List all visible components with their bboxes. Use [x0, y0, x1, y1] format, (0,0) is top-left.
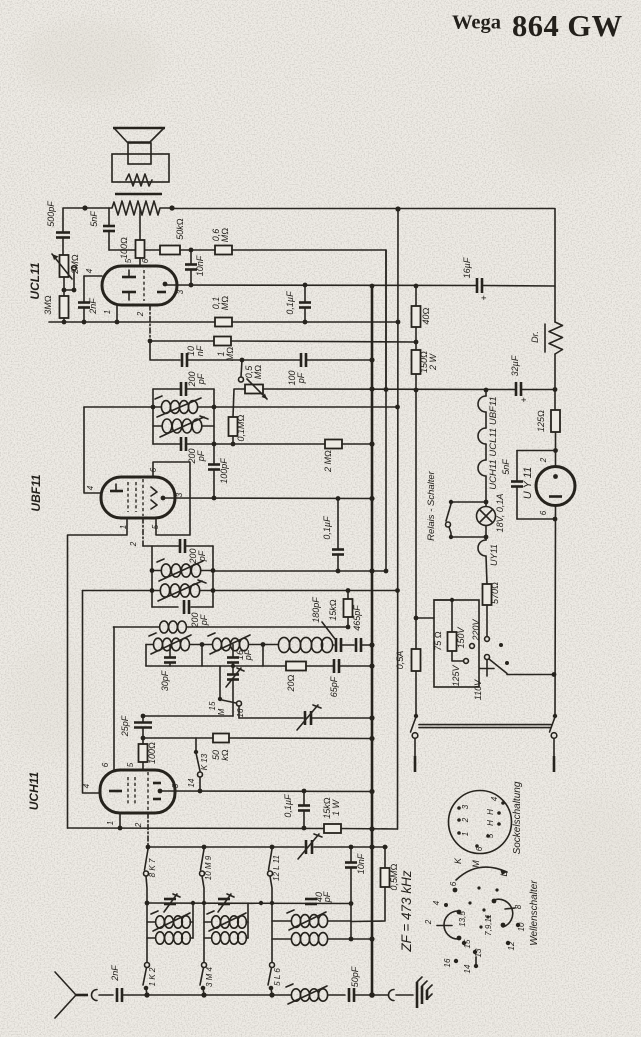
L band coil tuned [272, 920, 291, 922]
svg-text:MΩ: MΩ [253, 365, 263, 379]
svg-text:2: 2 [136, 311, 145, 317]
svg-text:8: 8 [514, 904, 523, 909]
riser from pin6 [113, 626, 116, 628]
mains cable double line [419, 724, 551, 726]
fuse 0,5A [412, 649, 421, 671]
node heater y537 [484, 535, 489, 540]
node box left y407 [151, 405, 156, 410]
svg-text:8 K 7: 8 K 7 [148, 858, 157, 877]
svg-text:ZF = 473 kHz: ZF = 473 kHz [399, 870, 414, 952]
rectifier tube UY11 [536, 467, 575, 506]
svg-text:15: 15 [208, 701, 217, 710]
plug prong right [553, 739, 555, 758]
svg-text:10nF: 10nF [356, 853, 366, 874]
svg-text:2 MΩ: 2 MΩ [323, 450, 333, 473]
svg-text:16µF: 16µF [462, 257, 472, 278]
svg-text:100pF: 100pF [219, 458, 229, 484]
plug prong left [414, 739, 416, 758]
gang capacitor RF section [305, 840, 308, 854]
svg-text:4: 4 [86, 485, 95, 490]
IF2 bottom wire [152, 606, 178, 608]
node x214 y498 [212, 496, 217, 501]
line y903 [147, 902, 351, 905]
L band coil ant on y939 [272, 938, 291, 940]
resistor 3M [60, 296, 69, 318]
svg-text:6: 6 [475, 846, 484, 851]
IF1 box left [152, 389, 154, 444]
svg-text:2: 2 [461, 817, 470, 823]
svg-text:125V: 125V [451, 664, 461, 686]
IF1 top wire [153, 388, 180, 390]
svg-text:5nF: 5nF [501, 459, 511, 475]
svg-text:MΩ: MΩ [220, 228, 230, 242]
terminal 125V [464, 659, 469, 664]
svg-text:1: 1 [461, 832, 470, 836]
capacitor 200pF IF1 bottom [153, 443, 180, 445]
pin4 wire to x84 [84, 407, 101, 493]
node x555 y389 [553, 387, 558, 392]
svg-text:465pF: 465pF [352, 605, 362, 631]
node x416 y342 [414, 340, 419, 345]
socket pins left column [457, 806, 461, 810]
osc line y627 [114, 626, 160, 628]
resistor 2M series [325, 440, 342, 449]
node x397 y590 [395, 588, 400, 593]
wire below lamp [485, 526, 487, 541]
IF2 primary coil [152, 570, 161, 572]
node top rail x397 [395, 206, 400, 211]
svg-text:2MΩ: 2MΩ [70, 254, 80, 275]
anode line y498 [165, 497, 372, 500]
node box left y571 [150, 568, 155, 573]
svg-text:13: 13 [474, 948, 483, 957]
trimmer L 40pF [305, 898, 317, 901]
node x214 y444 [212, 442, 217, 447]
coil L osc big [278, 637, 289, 652]
pin2 dashed drop [147, 813, 149, 847]
output transformer frame [112, 154, 169, 182]
svg-text:13,5: 13,5 [458, 911, 467, 927]
capacitor 2nF antenna [116, 988, 119, 1002]
svg-text:nF: nF [195, 345, 205, 356]
svg-text:12 L 11: 12 L 11 [272, 855, 281, 881]
svg-text:4: 4 [432, 900, 441, 905]
svg-text:UBF11: UBF11 [29, 474, 43, 511]
pin2 wire dashdot [149, 305, 151, 341]
pin6 wire + resistor 100 ohm [139, 208, 141, 240]
M band coil ant [204, 937, 211, 939]
svg-text:3: 3 [176, 289, 185, 294]
wiper wire to 0,1M [233, 389, 245, 417]
capacitor 200pF IF2 bottom [183, 600, 186, 614]
UCL11 pin3 dot [163, 282, 168, 287]
IF2 top wire [143, 545, 179, 547]
wire [180, 249, 215, 251]
wave switch arc KML [456, 867, 507, 880]
ground symbol [416, 982, 419, 1008]
svg-text:5: 5 [486, 833, 495, 838]
terminal 220V [485, 637, 490, 642]
wiper 110V [485, 655, 490, 660]
svg-text:16: 16 [443, 958, 452, 967]
K band coil tuned [147, 921, 155, 923]
vertical x386 [385, 250, 387, 571]
M section verticals [203, 903, 205, 962]
svg-text:6: 6 [101, 762, 110, 767]
svg-text:4: 4 [82, 783, 91, 788]
svg-text:5: 5 [126, 762, 135, 767]
IF1 primary coil [84, 406, 161, 408]
node x348 y590 [346, 588, 351, 593]
wire wiper [64, 270, 74, 290]
capacitor 10nF vertical [190, 250, 192, 264]
switch M4 [202, 963, 207, 968]
capacitor 100pF tap [213, 444, 215, 464]
5nF bottom wire [517, 518, 555, 520]
svg-text:Relais - Schalter: Relais - Schalter [426, 470, 437, 541]
pin6 feedback loop [153, 462, 190, 535]
node x372 y571 [369, 568, 374, 573]
node x486 y390 heater top [484, 388, 489, 393]
svg-text:3: 3 [171, 783, 180, 788]
M band coil tuned [204, 921, 211, 923]
svg-text:0,1µF: 0,1µF [285, 291, 295, 315]
gang capacitor osc section [304, 711, 307, 725]
pin4 wire [84, 275, 102, 277]
capacitor 16pF [232, 645, 234, 658]
node bus x398 [396, 320, 401, 325]
svg-text:K: K [453, 857, 463, 864]
osc coil line y644 [146, 644, 153, 646]
UBF11 grid dashes [127, 482, 129, 512]
node box right y407 [212, 405, 217, 410]
K band coil ant [147, 937, 155, 939]
svg-text:M: M [217, 708, 226, 715]
IF2 box left [151, 546, 153, 607]
svg-text:14: 14 [187, 778, 196, 787]
earth line coil [291, 989, 300, 1001]
tube UCH11 envelope [100, 770, 175, 813]
svg-text:UCL11: UCL11 [28, 262, 42, 299]
node x555 y519 [553, 517, 558, 522]
node box right y590 [211, 588, 216, 593]
svg-text:100Ω: 100Ω [147, 742, 157, 764]
svg-text:1 K 2: 1 K 2 [148, 967, 157, 986]
capacitor 5nF UY [516, 451, 518, 482]
IF1 secondary coil [153, 425, 162, 427]
vertical x397 [397, 209, 400, 829]
switch M9 [201, 849, 205, 870]
svg-text:Wellenschalter: Wellenschalter [529, 880, 540, 946]
mains switch right [553, 714, 557, 718]
svg-text:0,5MΩ: 0,5MΩ [389, 863, 399, 890]
resistor 15k 1W series [324, 824, 341, 833]
UBF11 pin2 internal dash [142, 479, 144, 516]
svg-text:pF: pF [243, 649, 253, 661]
UCL11 cathode bar [122, 291, 136, 294]
node bus [62, 320, 67, 325]
switch K13 [194, 750, 198, 754]
svg-text:180pF: 180pF [311, 597, 321, 623]
capacitor 0,1uF drop [304, 285, 306, 302]
pin4 wire left riser [83, 591, 101, 794]
switch K7 [145, 849, 149, 870]
resistor 15k AVC [347, 591, 349, 600]
capacitor 100pF series [300, 353, 303, 367]
wire y360 [150, 341, 180, 360]
antenna connector hook [92, 990, 98, 1001]
svg-text:220V: 220V [471, 618, 481, 641]
svg-text:1: 1 [106, 821, 115, 825]
svg-text:7,9,11: 7,9,11 [484, 914, 493, 936]
switch M 15/16 [219, 666, 221, 697]
svg-text:30pF: 30pF [160, 670, 170, 691]
svg-text:0,1MΩ: 0,1MΩ [236, 414, 246, 441]
svg-text:14: 14 [463, 964, 472, 973]
capacitor 65pF series [333, 659, 336, 673]
op tube UCL11 envelope [102, 266, 177, 305]
node x397 y407 [395, 405, 400, 410]
svg-text:pF: pF [196, 450, 206, 462]
line y444 [187, 443, 325, 445]
svg-text:UCH11 UCL11 UBF11: UCH11 UCL11 UBF11 [488, 396, 499, 489]
line y666 [146, 665, 286, 667]
svg-text:4: 4 [85, 268, 94, 273]
pin2 dashed drop [142, 518, 144, 546]
svg-text:kΩ: kΩ [220, 749, 230, 761]
pin1 wire [119, 813, 121, 828]
trimmer K [164, 898, 176, 901]
svg-text:+: + [519, 397, 529, 402]
pin6 riser to osc coil [113, 627, 115, 770]
resistor 50k [160, 246, 180, 255]
svg-text:UCH11: UCH11 [27, 771, 41, 810]
resistor 1M series [214, 337, 231, 346]
svg-text:5 L 6: 5 L 6 [273, 968, 282, 986]
trimmer M [227, 673, 239, 676]
svg-text:0,1µF: 0,1µF [283, 794, 293, 818]
cathode bus y828 [68, 827, 325, 830]
coil core arrow [157, 398, 201, 417]
anode line y791 [162, 790, 372, 793]
svg-text:M: M [471, 860, 481, 868]
svg-text:100Ω: 100Ω [119, 237, 129, 259]
capacitor 180pF [335, 638, 338, 652]
resistor 150 ohm 2W [412, 350, 421, 374]
IF2 box right [212, 546, 214, 607]
UCH11 grid dashes [127, 777, 129, 806]
svg-text:K 13: K 13 [200, 753, 209, 770]
svg-text:2: 2 [539, 457, 548, 463]
svg-text:Sockelschaltung: Sockelschaltung [512, 781, 523, 854]
grid line y716 [143, 715, 233, 717]
heater UY11 bump [478, 540, 486, 556]
resistor 0,6M [215, 246, 232, 255]
svg-text:25pF: 25pF [120, 715, 130, 737]
switch L11 [269, 849, 273, 870]
resistor 0,1M series [215, 318, 232, 327]
svg-text:15: 15 [463, 939, 472, 948]
node 50k junction [189, 248, 194, 253]
wire pot to rail [263, 388, 515, 391]
wave switch left rotor [444, 911, 458, 939]
switch K2 [145, 963, 150, 968]
svg-text:3: 3 [175, 492, 184, 497]
wire top rail y=208 [172, 208, 555, 210]
wire y250 left [109, 249, 135, 251]
svg-text:75 Ω: 75 Ω [433, 631, 443, 651]
capacitor 10nF AVC [350, 847, 352, 862]
switch L6 [270, 963, 275, 968]
svg-text:2: 2 [129, 541, 138, 547]
svg-text:H: H [486, 820, 495, 826]
node y360 x372 [369, 357, 374, 362]
svg-text:1 W: 1 W [331, 799, 341, 817]
K section verticals [146, 903, 148, 962]
UCH11 pin3 dot [158, 789, 163, 794]
resistor 125 ohm [551, 410, 560, 432]
wire to 570 [486, 556, 487, 584]
resistor 0,1M [229, 417, 238, 436]
wire y571 to x386 [213, 570, 386, 572]
IF1 box right [213, 389, 215, 444]
wire [63, 318, 65, 322]
svg-text:1: 1 [103, 310, 112, 314]
node A field coil left [82, 205, 87, 210]
resistor 75 ohm [448, 632, 457, 651]
svg-text:6: 6 [141, 258, 150, 263]
capacitor 200pF IF2 top [179, 539, 182, 553]
svg-text:10: 10 [517, 922, 526, 931]
svg-text:+: + [479, 295, 489, 300]
resistor 50k series y738 [143, 737, 213, 739]
resistor 40 ohm [412, 306, 421, 327]
resistor 0,5M AVC [384, 847, 386, 868]
K13 stub [195, 738, 197, 751]
pin1 wire [116, 305, 118, 322]
pin1 wire [68, 518, 128, 828]
resistor 20 ohm series [286, 662, 306, 671]
tube UBF11 envelope [101, 477, 175, 518]
svg-text:Dr.: Dr. [530, 331, 540, 343]
dial lamp 18V 0,1A [477, 507, 496, 526]
svg-text:Wega: Wega [452, 12, 501, 34]
terminal 150V [470, 644, 475, 649]
capacitor 500pF [56, 231, 70, 234]
core bar [115, 193, 162, 196]
node box left y590 [150, 588, 155, 593]
tuning rail y847 [148, 846, 304, 848]
capacitor 25pF [142, 716, 144, 722]
heater UBF11 bump [478, 396, 486, 412]
node heater y502 [484, 500, 489, 505]
svg-text:5nF: 5nF [89, 211, 99, 227]
svg-text:10 M 9: 10 M 9 [204, 855, 213, 880]
node 0,1M bottom [231, 442, 236, 447]
earth bus y995 [123, 994, 291, 996]
wire 500pF branch [63, 208, 85, 231]
capacitor 50pF [348, 988, 351, 1002]
svg-text:pF: pF [296, 372, 306, 384]
speaker magnet [128, 143, 151, 164]
connector hook earth [389, 990, 394, 1001]
node x348 y627 [346, 625, 351, 630]
voice coil resistor zigzag [126, 174, 152, 186]
svg-text:50pF: 50pF [350, 966, 360, 987]
node box right y571 [211, 568, 216, 573]
svg-text:40Ω: 40Ω [421, 307, 431, 324]
svg-text:20Ω: 20Ω [286, 674, 296, 692]
svg-text:6: 6 [539, 510, 548, 515]
svg-text:pF: pF [199, 614, 209, 626]
svg-text:pF: pF [197, 550, 207, 562]
node 10nF anode line [189, 283, 194, 288]
node y285 x305 [303, 283, 308, 288]
svg-text:UY11: UY11 [489, 544, 499, 566]
svg-text:32µF: 32µF [510, 355, 520, 376]
svg-text:6: 6 [449, 881, 458, 886]
aux dots [499, 643, 503, 647]
choke Dr. [549, 322, 563, 354]
potentiometer 0,5M volume [239, 377, 244, 382]
svg-text:3 M 4: 3 M 4 [205, 966, 214, 987]
L section vertical [271, 903, 273, 962]
coil core arrow [159, 561, 203, 581]
svg-text:U Y 11: U Y 11 [522, 467, 534, 499]
resistor 570 ohm [483, 584, 492, 605]
UCL11 anode bar [122, 276, 136, 279]
capacitor 5nF [108, 208, 110, 225]
thick vertical bus x372 [371, 287, 374, 995]
wire y250 to x386 [232, 250, 386, 390]
svg-text:2: 2 [134, 822, 143, 828]
coil core arrow [158, 581, 202, 601]
node x372 y444 [369, 441, 374, 446]
node y285 x372 [370, 284, 375, 289]
node x386 y571 [384, 569, 389, 574]
grid line y341 [148, 339, 153, 344]
vertical x416 [415, 286, 417, 306]
field coil R zigzag [85, 201, 172, 215]
svg-text:3: 3 [461, 804, 470, 809]
svg-text:150V: 150V [456, 626, 466, 648]
heater UCH11 bump [478, 460, 486, 476]
node 2nF bus [82, 320, 87, 325]
coil core arrow [160, 417, 204, 437]
svg-text:H: H [486, 809, 495, 815]
UCH11 anode bars [153, 782, 161, 785]
plain coupling coil [160, 621, 169, 633]
svg-text:pF: pF [322, 891, 332, 903]
svg-text:2: 2 [424, 919, 433, 925]
socket diagram circle [449, 791, 512, 854]
coil M osc [213, 638, 222, 651]
heater chain wire [485, 390, 487, 396]
UBF11 pin3 dot [161, 496, 166, 501]
svg-text:2 W: 2 W [428, 353, 438, 372]
svg-text:12: 12 [507, 941, 516, 950]
coil K osc [154, 638, 163, 651]
svg-text:MΩ: MΩ [225, 347, 235, 361]
svg-text:16: 16 [236, 708, 245, 717]
wiper circle 2M [72, 266, 77, 271]
section verticals [145, 645, 147, 667]
antenna [55, 972, 76, 995]
node x555 y450 [553, 448, 558, 453]
capacitor 465pF [355, 638, 358, 652]
5nF top wire [517, 450, 556, 452]
vertical x555 [554, 209, 556, 322]
